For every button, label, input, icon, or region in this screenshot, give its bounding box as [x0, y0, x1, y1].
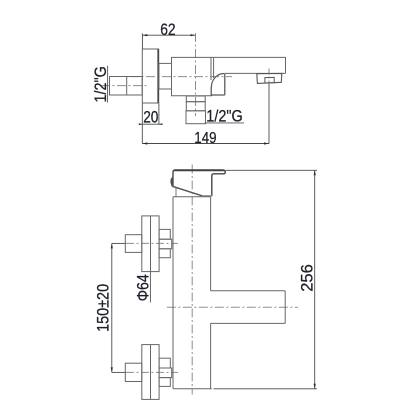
- spout (front) bottom edge: [211, 322, 286, 324]
- svg-text:62: 62: [160, 21, 175, 39]
- dim 256 extension top: [226, 169, 318, 171]
- dim 20 line: [139, 123, 161, 125]
- dim text 150±20: [95, 284, 113, 332]
- dim 256 extension bottom: [214, 388, 318, 390]
- spout (front) end edge: [284, 291, 286, 324]
- dim 149 line: [142, 143, 269, 145]
- inlet pipe nut line: [126, 77, 128, 96]
- upper union pipe: [125, 235, 142, 253]
- label 1/2"G rotated (wall inlet): [92, 66, 110, 102]
- body right edge upper: [210, 197, 212, 291]
- body (front) top edge: [173, 196, 211, 198]
- aerator housing: [257, 73, 282, 83]
- dim 20 arrows: [139, 123, 143, 125]
- lower union nut middle facet: [159, 368, 172, 378]
- spout top edge: [213, 56, 285, 58]
- upper union nut bottom facet: [159, 249, 170, 258]
- hub: [159, 63, 172, 89]
- body right edge lower: [210, 323, 212, 388]
- inlet pipe: [110, 77, 143, 96]
- label underline (wall inlet): [107, 66, 109, 103]
- lower union nut top facet: [159, 358, 170, 368]
- svg-text:1/2"G: 1/2"G: [92, 66, 110, 102]
- spout tip edge: [285, 57, 287, 73]
- spout back box left edge: [210, 87, 212, 95]
- spout back box right edge: [224, 74, 226, 95]
- lever handle: [173, 170, 225, 196]
- dim text 256: [298, 264, 316, 292]
- body: [172, 57, 214, 95]
- spout elbow curve: [211, 74, 224, 88]
- dim 20 extension right: [158, 104, 160, 125]
- svg-text:256: 256: [298, 264, 316, 292]
- wall flange bold edge: [157, 49, 159, 103]
- svg-text:149: 149: [194, 130, 216, 147]
- dim 256 arrows: [314, 170, 316, 175]
- wall flange: [142, 49, 158, 103]
- dim 62 extension left: [141, 33, 143, 48]
- spout junction line: [210, 57, 212, 80]
- cover base thick segment: [202, 195, 212, 197]
- upper union nut middle facet: [159, 239, 172, 249]
- centerline lower union: [112, 371, 126, 373]
- svg-text:20: 20: [143, 109, 158, 127]
- lower union flange: [142, 345, 159, 400]
- shower outlet neck: [186, 96, 205, 102]
- aerator insert: [265, 77, 274, 83]
- svg-text:150±20: 150±20: [95, 284, 113, 332]
- dim 149 arrows: [142, 142, 147, 144]
- centerline spout horizontal (front): [167, 306, 298, 308]
- dim 62 line: [142, 34, 195, 36]
- centerline upper union: [112, 242, 126, 244]
- lower union flange midline: [150, 345, 152, 400]
- dim 256 line: [314, 170, 316, 388]
- upper union nut top facet: [159, 229, 170, 239]
- handle top bar accent: [174, 169, 224, 171]
- shower outlet nut: [186, 111, 206, 124]
- label φ64 rotated: [135, 274, 153, 301]
- shower outlet thread: [186, 102, 205, 111]
- body bottom edge: [173, 388, 212, 390]
- dim 150±20 line: [111, 243, 113, 372]
- spout junction line 2: [213, 57, 215, 78]
- lower union pipe: [125, 363, 142, 381]
- centerline eccentric inlet pipe: [101, 85, 147, 87]
- label φ64 underline: [149, 272, 151, 302]
- handle pivot bump: [171, 178, 173, 186]
- upper union flange: [142, 216, 159, 272]
- dim 149 extension right: [268, 84, 270, 144]
- label underline (shower outlet): [205, 122, 244, 124]
- cover left edge: [175, 187, 177, 197]
- centerline aerator vertical: [268, 69, 270, 87]
- centerline body vertical (front): [191, 165, 193, 395]
- cartridge cover slant: [171, 186, 202, 196]
- dim 150±20 arrows: [111, 243, 113, 248]
- spout (front) top edge: [211, 290, 286, 292]
- dim 20 extension left: [141, 104, 143, 144]
- spout underside: [225, 72, 286, 74]
- upper union flange midline: [150, 216, 152, 272]
- lower union nut bottom facet: [159, 378, 170, 387]
- body left edge: [172, 197, 174, 389]
- centerline body vertical: [195, 33, 197, 116]
- dim 62 arrows: [142, 34, 147, 36]
- spout back box bottom: [211, 94, 225, 96]
- centerline main body axis: [130, 76, 232, 78]
